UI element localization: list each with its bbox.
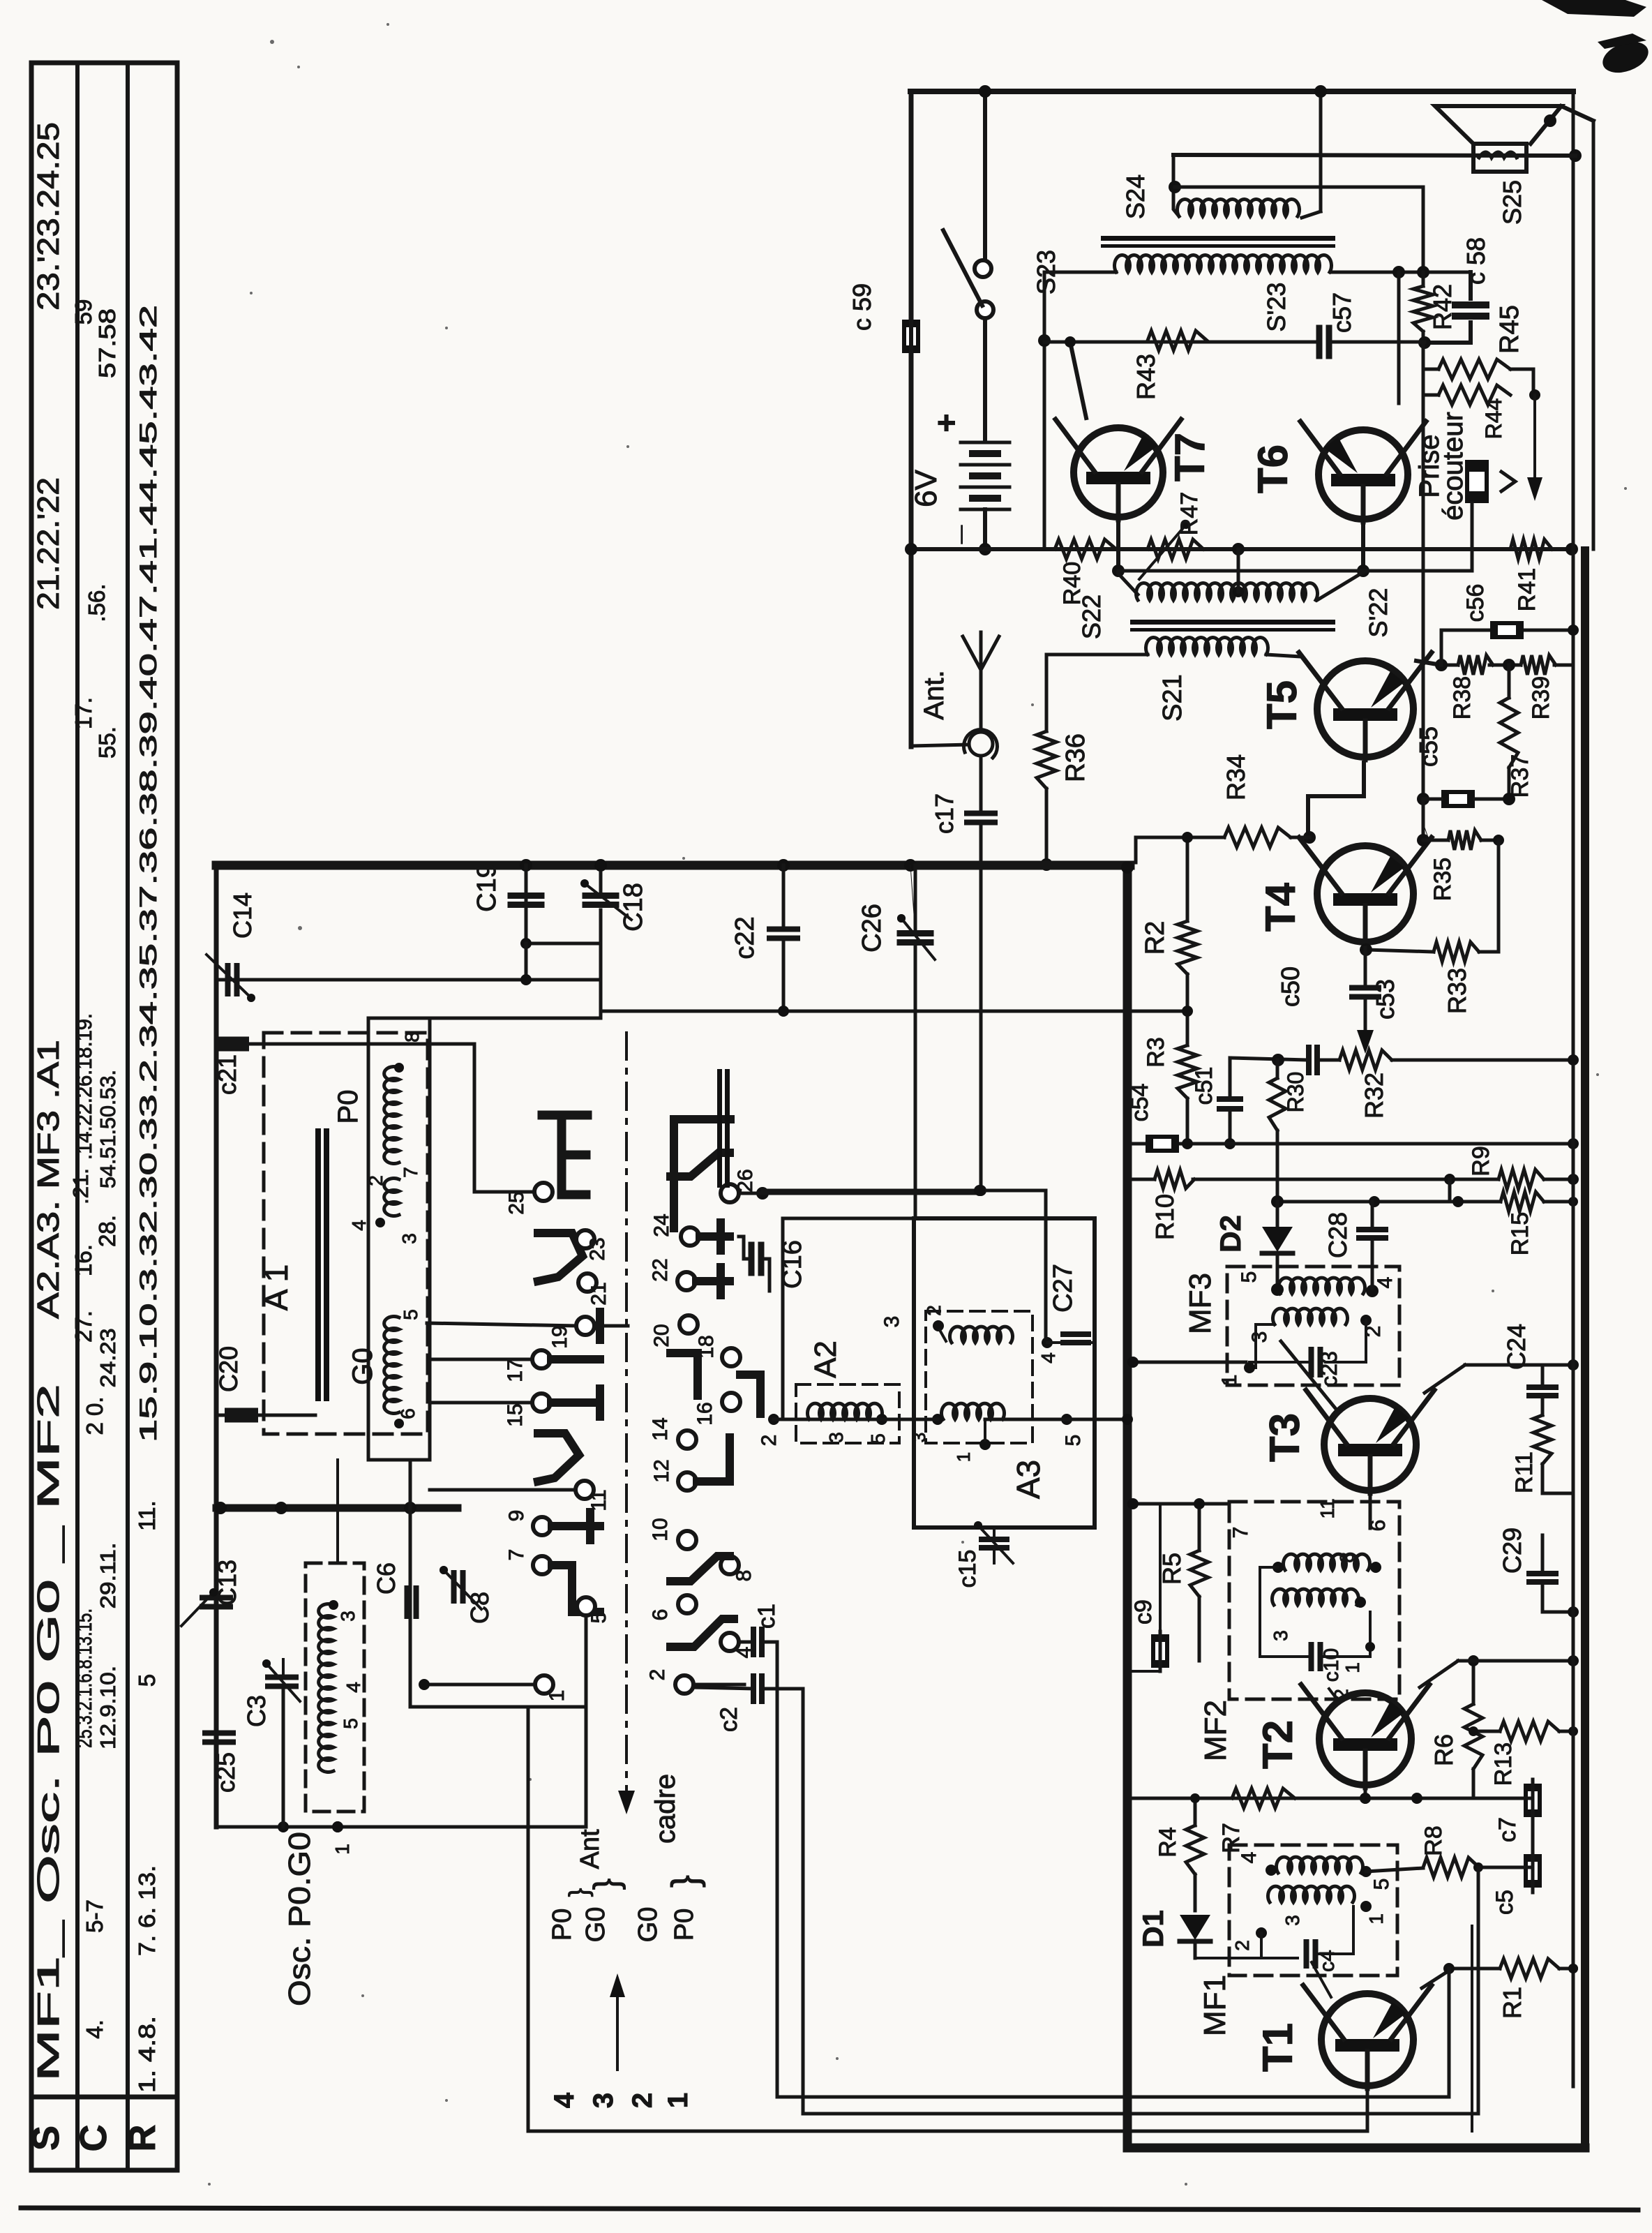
wire S24 left lead bbox=[1173, 155, 1179, 216]
label T4 bbox=[1257, 882, 1304, 932]
wire return 1 bbox=[777, 1642, 1449, 2097]
svg-text:R35: R35 bbox=[1429, 858, 1456, 901]
resistor R42 bbox=[1413, 286, 1433, 331]
block osc dashed bbox=[306, 1563, 364, 1812]
capacitor c21 bbox=[218, 1040, 246, 1049]
svg-text:R44: R44 bbox=[1481, 398, 1506, 440]
wire coilbox-bus link bbox=[409, 1460, 412, 1508]
svg-text:R2: R2 bbox=[1141, 921, 1170, 955]
label t8 bbox=[733, 1570, 756, 1582]
switch bracket 12 bbox=[697, 1437, 730, 1481]
svg-text:R39: R39 bbox=[1528, 676, 1554, 719]
switch lever low bbox=[538, 1433, 579, 1481]
label MF1 pin3 bbox=[1282, 1915, 1303, 1926]
junction bus 1305 bbox=[904, 859, 917, 872]
label osc pin5 bbox=[340, 1718, 361, 1729]
label G0 pin5 bbox=[400, 1309, 421, 1320]
capacitor c10 bbox=[1312, 1645, 1321, 1668]
svg-text:7: 7 bbox=[400, 1167, 421, 1178]
wire S21 right bbox=[1266, 655, 1300, 657]
svg-text:c54: c54 bbox=[1127, 1084, 1153, 1122]
speaker cone bbox=[1435, 106, 1593, 144]
terminal 1 bbox=[535, 1675, 553, 1694]
label R3 bbox=[1143, 1037, 1169, 1067]
wire return 4 bbox=[1471, 1926, 1473, 2131]
label R39 bbox=[1528, 676, 1554, 719]
transistor T5 bbox=[1299, 652, 1432, 760]
label C26 bbox=[857, 904, 887, 953]
label battery + bbox=[928, 414, 964, 433]
label C29 bbox=[1498, 1528, 1526, 1574]
wire t25 link bbox=[474, 1044, 534, 1192]
label battery 6V bbox=[909, 469, 943, 507]
terminal 23 bbox=[576, 1230, 594, 1248]
junction 2161 b bbox=[275, 1502, 287, 1514]
table S text MF1-MF2 bbox=[31, 1384, 66, 2082]
label R30 bbox=[1283, 1072, 1308, 1113]
label A3 pin4 bbox=[1037, 1352, 1059, 1364]
switch bar 19 bbox=[594, 1312, 628, 1340]
wire mf2 feed line bbox=[1127, 1498, 1229, 1509]
terminal 18 bbox=[722, 1348, 740, 1366]
capacitor C26 variable bbox=[897, 914, 935, 959]
svg-text:C26: C26 bbox=[857, 904, 887, 953]
junction rail right bbox=[1565, 543, 1578, 555]
svg-text:1: 1 bbox=[1342, 1662, 1363, 1673]
table R text 1.4.8 bbox=[134, 2016, 160, 2093]
junction MF3 pin2 bbox=[1360, 1315, 1372, 1326]
switch contact top bbox=[975, 260, 991, 277]
terminal 7 bbox=[533, 1556, 551, 1574]
block MF2 dashed box bbox=[1229, 1502, 1399, 1699]
scan blob top-right 1 bbox=[1542, 0, 1646, 17]
wire c25 drop bbox=[215, 1701, 218, 1786]
wire R13 bbox=[1469, 1726, 1578, 1736]
label R41 bbox=[1514, 568, 1540, 611]
capacitor C18 variable bbox=[580, 879, 631, 920]
svg-text:c 59: c 59 bbox=[848, 283, 876, 331]
label t6 bbox=[649, 1609, 672, 1621]
svg-text:R11: R11 bbox=[1511, 1451, 1538, 1493]
capacitor C13 bbox=[202, 1598, 230, 1607]
terminal 8 bbox=[721, 1556, 739, 1574]
label C27 bbox=[1049, 1264, 1078, 1313]
table C text 55 bbox=[94, 726, 120, 759]
coil Osc bbox=[319, 1604, 333, 1772]
svg-text:c2: c2 bbox=[716, 1707, 742, 1732]
junction 2161 c bbox=[404, 1502, 416, 1514]
svg-text:c 58: c 58 bbox=[1462, 237, 1490, 285]
label MF2 pin3 bbox=[1270, 1630, 1291, 1641]
svg-text:59: 59 bbox=[70, 299, 96, 325]
label t14 bbox=[649, 1417, 672, 1440]
label S24 bbox=[1121, 174, 1150, 219]
label t1 bbox=[546, 1690, 569, 1702]
label battery - bbox=[929, 525, 966, 544]
wire MF3 p4 bbox=[1371, 1264, 1374, 1288]
wire R45-R44 link bbox=[1510, 369, 1533, 395]
wire S21 left bbox=[1046, 653, 1148, 657]
junction bus corner bbox=[1121, 861, 1134, 874]
thick bus 2161 bbox=[216, 1504, 458, 1512]
svg-text:R45: R45 bbox=[1495, 305, 1524, 354]
svg-text:S21: S21 bbox=[1158, 674, 1187, 722]
svg-text:R32: R32 bbox=[1360, 1073, 1388, 1119]
switch frame 24 bbox=[674, 1119, 730, 1228]
table header letter S bbox=[25, 2126, 67, 2151]
terminal 9 bbox=[533, 1517, 551, 1535]
wire c10 left bbox=[1260, 1567, 1312, 1657]
resistor R30 bbox=[1269, 1078, 1286, 1130]
junction R42 bottom bbox=[1418, 336, 1431, 349]
svg-text:S'23: S'23 bbox=[1262, 283, 1291, 332]
wire C29 bbox=[1542, 1535, 1579, 1618]
junction bus 754 bbox=[520, 859, 532, 872]
switch lever 26 bbox=[670, 1153, 730, 1177]
wire c10 right bbox=[1320, 1612, 1375, 1657]
svg-text:c9: c9 bbox=[1130, 1599, 1157, 1625]
svg-text:A2.A3. MF3 .A1: A2.A3. MF3 .A1 bbox=[31, 1040, 66, 1319]
label t25 bbox=[505, 1191, 528, 1214]
svg-text:R10: R10 bbox=[1150, 1194, 1179, 1240]
junction T7 emitter bbox=[1112, 565, 1125, 577]
coil S23 bbox=[1115, 255, 1332, 272]
label R32 bbox=[1360, 1073, 1388, 1119]
svg-text:16: 16 bbox=[693, 1402, 716, 1425]
wire c20 line bbox=[216, 1414, 315, 1417]
svg-text:5: 5 bbox=[340, 1718, 361, 1729]
label c21 bbox=[213, 1054, 241, 1095]
terminal 25 bbox=[534, 1183, 553, 1201]
coil A2 bbox=[808, 1403, 883, 1419]
svg-text:P0: P0 bbox=[548, 1909, 577, 1941]
svg-text:c50: c50 bbox=[1276, 966, 1305, 1007]
svg-text:+: + bbox=[928, 414, 964, 433]
label MF2 bbox=[1199, 1700, 1233, 1761]
junction A3 p5 bbox=[1061, 1414, 1072, 1425]
wire T1 collector diag bbox=[1422, 1971, 1449, 1988]
label P0 bbox=[333, 1090, 363, 1124]
table S text 21.22.22 bbox=[31, 477, 66, 610]
label Osc.P0.G0 bbox=[283, 1832, 317, 2006]
wire R44 arrow drop bbox=[1527, 395, 1542, 501]
svg-text:24.23: 24.23 bbox=[96, 1329, 120, 1388]
wire AB link bbox=[1448, 1179, 1452, 1202]
capacitor c59 bbox=[902, 318, 920, 356]
junction MF2 pin7 bbox=[1272, 1562, 1284, 1573]
svg-text:11.: 11. bbox=[134, 1500, 160, 1530]
label R1 bbox=[1498, 1987, 1526, 2019]
label MF2 pin8 bbox=[1336, 1552, 1358, 1563]
wire MF3 pin2 drop bbox=[1326, 1320, 1366, 1362]
label A2 pin2 bbox=[758, 1435, 781, 1447]
switch bracket 16 bbox=[740, 1375, 760, 1414]
resistor R11 bbox=[1533, 1415, 1552, 1464]
junction A2 left bbox=[768, 1414, 779, 1425]
switch T 22 bbox=[696, 1267, 730, 1295]
svg-text:5: 5 bbox=[867, 1433, 889, 1444]
wire battery to rail bbox=[983, 509, 987, 549]
tuner left border bbox=[214, 865, 219, 1827]
label c1 bbox=[753, 1604, 780, 1629]
svg-text:T2: T2 bbox=[1254, 1720, 1301, 1769]
svg-text:écouteur: écouteur bbox=[1438, 412, 1469, 521]
svg-text:c55: c55 bbox=[1414, 726, 1443, 767]
svg-text:C29: C29 bbox=[1498, 1528, 1526, 1574]
capacitor C14 variable bbox=[206, 955, 255, 1002]
resistor R4 bbox=[1186, 1825, 1204, 1874]
wire R33 left bbox=[1360, 943, 1499, 956]
svg-text:6V: 6V bbox=[909, 469, 943, 507]
junction 2161 a bbox=[214, 1502, 227, 1514]
label MF2 pin11 bbox=[1316, 1498, 1338, 1518]
svg-text:22: 22 bbox=[649, 1258, 672, 1281]
wire T4 emitter bbox=[1364, 948, 1367, 950]
table C text 27 bbox=[70, 1310, 96, 1343]
label R47 bbox=[1176, 492, 1203, 535]
resistor R7 bbox=[1232, 1788, 1295, 1808]
wire t15 link bbox=[430, 1401, 532, 1405]
label D1 bbox=[1136, 1910, 1169, 1948]
coil S21 bbox=[1146, 637, 1268, 655]
capacitor c5 bbox=[1524, 1849, 1542, 1892]
label t21 bbox=[587, 1282, 610, 1305]
label t12 bbox=[650, 1459, 673, 1482]
junction osc top bbox=[329, 1600, 338, 1610]
label MF1 pin4 bbox=[1238, 1852, 1261, 1864]
svg-text:}: } bbox=[664, 1875, 706, 1888]
wire c53 arrow bbox=[1357, 998, 1374, 1054]
terminal 16 bbox=[722, 1393, 740, 1411]
svg-text:c22: c22 bbox=[730, 916, 760, 959]
label R8 bbox=[1420, 1825, 1447, 1855]
coil MF1 primary bbox=[1276, 1857, 1362, 1873]
wire R34 line bbox=[1136, 837, 1309, 862]
label c15 bbox=[954, 1550, 981, 1588]
block A3 dashed bbox=[926, 1311, 1032, 1443]
svg-text:C14: C14 bbox=[228, 893, 257, 939]
terminal 26 bbox=[721, 1184, 739, 1202]
terminal 4 bbox=[721, 1633, 739, 1651]
wire R11 bottom bbox=[1542, 1464, 1573, 1493]
svg-text:.56.: .56. bbox=[84, 583, 110, 622]
svg-text:6: 6 bbox=[649, 1609, 672, 1621]
label P0 ant bbox=[548, 1907, 610, 1943]
svg-text:C8: C8 bbox=[465, 1592, 494, 1624]
table R text 11 bbox=[134, 1500, 160, 1530]
svg-text:1: 1 bbox=[953, 1452, 974, 1462]
junction pin4 bbox=[375, 1218, 385, 1227]
label R42 bbox=[1428, 284, 1457, 330]
svg-text:c57: c57 bbox=[1328, 292, 1356, 333]
svg-text:5: 5 bbox=[400, 1309, 421, 1320]
table R text 5 bbox=[134, 1674, 160, 1687]
label R9 bbox=[1468, 1146, 1494, 1176]
resistor R8 bbox=[1423, 1858, 1479, 1877]
junction t26 bbox=[756, 1187, 769, 1200]
svg-text:}: } bbox=[587, 1879, 626, 1890]
svg-text:55.: 55. bbox=[94, 726, 120, 759]
block A3 solid box bbox=[914, 1218, 1095, 1528]
svg-text:27.: 27. bbox=[70, 1310, 96, 1343]
table header separator bbox=[31, 2095, 177, 2100]
capacitor c23 bbox=[1312, 1350, 1321, 1375]
svg-text:17: 17 bbox=[504, 1359, 527, 1382]
svg-text:R37: R37 bbox=[1507, 754, 1533, 798]
table S text 23.23.24.25 bbox=[31, 122, 66, 311]
label R4 bbox=[1155, 1827, 1181, 1857]
svg-text:T5: T5 bbox=[1259, 680, 1305, 729]
label A1 bbox=[258, 1264, 294, 1311]
wire R2 top bbox=[1182, 832, 1193, 921]
switch bar 15 bbox=[551, 1389, 600, 1417]
wire S23 right lead bbox=[1331, 271, 1471, 274]
capacitor c1 bbox=[753, 1629, 762, 1655]
junction MF3 pin4 bbox=[1366, 1285, 1379, 1297]
label G0 pin6 bbox=[397, 1408, 419, 1419]
label R45 bbox=[1495, 305, 1524, 354]
svg-text:MF3: MF3 bbox=[1183, 1273, 1217, 1334]
transistor T4 bbox=[1299, 837, 1432, 945]
wire T3 emitter bbox=[1369, 1495, 1372, 1528]
table R text long bbox=[135, 305, 162, 1442]
resistor R34 bbox=[1224, 828, 1291, 847]
label pin2b bbox=[365, 1175, 386, 1186]
junction MF3 pin1 bbox=[1244, 1362, 1255, 1373]
capacitor c2 bbox=[753, 1676, 762, 1701]
svg-text:c56: c56 bbox=[1462, 584, 1489, 622]
label c54 bbox=[1127, 1084, 1153, 1122]
junction MF1 pin2 bbox=[1256, 1927, 1267, 1939]
terminal 2 bbox=[675, 1675, 693, 1694]
wire c27 bbox=[1047, 1341, 1095, 1344]
svg-text:MF2: MF2 bbox=[1199, 1700, 1233, 1761]
wire c56 line bbox=[1441, 625, 1579, 665]
label A3 pin3 bbox=[908, 1433, 929, 1442]
wire T2 emitter bbox=[1360, 1790, 1371, 1804]
label MF3 pin5 bbox=[1238, 1271, 1261, 1283]
svg-text:9: 9 bbox=[505, 1510, 528, 1522]
terminal 20 bbox=[679, 1315, 698, 1334]
capacitor C3 variable bbox=[262, 1659, 300, 1701]
junction osc bottom bbox=[332, 1821, 343, 1832]
wire R5 bbox=[1194, 1498, 1205, 1661]
svg-text:D1: D1 bbox=[1136, 1910, 1169, 1948]
switch lever 8 bbox=[670, 1556, 730, 1581]
label MF1 pin2 bbox=[1231, 1940, 1253, 1951]
table C text 56 bbox=[84, 583, 110, 622]
label C18 bbox=[619, 883, 648, 932]
svg-text:5: 5 bbox=[587, 1612, 610, 1624]
svg-text:c15: c15 bbox=[954, 1550, 981, 1588]
wire c19-c14 line bbox=[219, 943, 601, 1011]
svg-text:25.3.2.1.6.8.13.15.: 25.3.2.1.6.8.13.15. bbox=[72, 1608, 96, 1748]
label Ant brace bbox=[564, 1829, 626, 1897]
svg-text:12.9.10.: 12.9.10. bbox=[96, 1666, 120, 1749]
svg-text:8: 8 bbox=[733, 1570, 756, 1582]
svg-text:A3: A3 bbox=[1010, 1460, 1046, 1499]
junction MF2 pin8 bbox=[1355, 1597, 1366, 1608]
svg-text:C27: C27 bbox=[1049, 1264, 1078, 1313]
speaker frame S25 bbox=[1473, 144, 1526, 172]
wire c23 left bbox=[1249, 1361, 1312, 1364]
label t22 bbox=[649, 1258, 672, 1281]
svg-text:1: 1 bbox=[331, 1844, 353, 1855]
label T5 bbox=[1259, 680, 1305, 729]
label C14 bbox=[228, 893, 257, 939]
svg-text:4: 4 bbox=[549, 2092, 580, 2108]
coil box bbox=[368, 1018, 430, 1460]
label t15 bbox=[504, 1403, 527, 1426]
svg-text:P0: P0 bbox=[333, 1090, 363, 1124]
label c51 bbox=[1191, 1067, 1217, 1105]
label MF2 pin6 bbox=[1367, 1520, 1390, 1532]
svg-text:R34: R34 bbox=[1222, 754, 1250, 800]
junction tap bbox=[1529, 389, 1540, 401]
label t4 bbox=[733, 1647, 756, 1659]
svg-text:2: 2 bbox=[1231, 1940, 1253, 1951]
label R38 bbox=[1449, 676, 1475, 719]
svg-text:G0: G0 bbox=[633, 1907, 663, 1943]
svg-text:R43: R43 bbox=[1132, 354, 1160, 400]
svg-text:15: 15 bbox=[504, 1403, 527, 1426]
label T1 bbox=[1254, 2023, 1301, 2072]
table C text 29.11 bbox=[96, 1543, 120, 1609]
wire T4 base diag bbox=[1305, 837, 1309, 842]
label S22 bbox=[1077, 595, 1106, 639]
svg-text:54.51.50.53.: 54.51.50.53. bbox=[96, 1070, 120, 1188]
svg-text:c53: c53 bbox=[1371, 979, 1399, 1020]
svg-text:R47: R47 bbox=[1176, 492, 1203, 535]
svg-text:6: 6 bbox=[397, 1408, 419, 1419]
switch lever 6 bbox=[670, 1619, 734, 1647]
svg-text:C24: C24 bbox=[1502, 1324, 1531, 1370]
svg-text:4: 4 bbox=[1238, 1852, 1261, 1864]
label t16 bbox=[693, 1402, 716, 1425]
svg-text:11: 11 bbox=[1316, 1498, 1338, 1518]
label R6 bbox=[1429, 1734, 1458, 1766]
wire c15 drop bbox=[993, 1528, 996, 1563]
main top bus bbox=[216, 861, 1130, 870]
svg-text:7: 7 bbox=[505, 1549, 528, 1561]
label A2 pin3 bbox=[825, 1432, 847, 1443]
wire t19 link bbox=[427, 1323, 576, 1326]
svg-text:5: 5 bbox=[1238, 1271, 1261, 1283]
wire S22 right hook bbox=[1317, 572, 1363, 600]
wire R2-R3 bbox=[1186, 974, 1189, 1045]
transformer core S22 bbox=[1130, 620, 1335, 632]
junction rail S22 tap bbox=[1232, 543, 1245, 555]
label G0 bbox=[347, 1347, 378, 1384]
wire T6 collector riser bbox=[1397, 272, 1401, 403]
terminal 12 bbox=[678, 1472, 696, 1491]
label c58 bbox=[1462, 237, 1490, 285]
svg-text:2: 2 bbox=[627, 2093, 658, 2108]
svg-text:7: 7 bbox=[1229, 1527, 1252, 1539]
resistor R45 bbox=[1439, 359, 1510, 379]
svg-text:Osc. P0.G0: Osc. P0.G0 bbox=[283, 1832, 317, 2006]
label R40 bbox=[1059, 562, 1086, 605]
capacitor C28 bbox=[1359, 1202, 1386, 1288]
label A3 pin2 bbox=[923, 1305, 945, 1316]
label ecouteur bbox=[1438, 412, 1469, 521]
svg-text:2: 2 bbox=[365, 1175, 386, 1186]
label c7 bbox=[1494, 1817, 1521, 1842]
coil A3 top bbox=[950, 1327, 1013, 1343]
resistor R39 bbox=[1521, 655, 1556, 675]
label D2 bbox=[1214, 1215, 1247, 1253]
svg-text:2: 2 bbox=[646, 1669, 669, 1681]
